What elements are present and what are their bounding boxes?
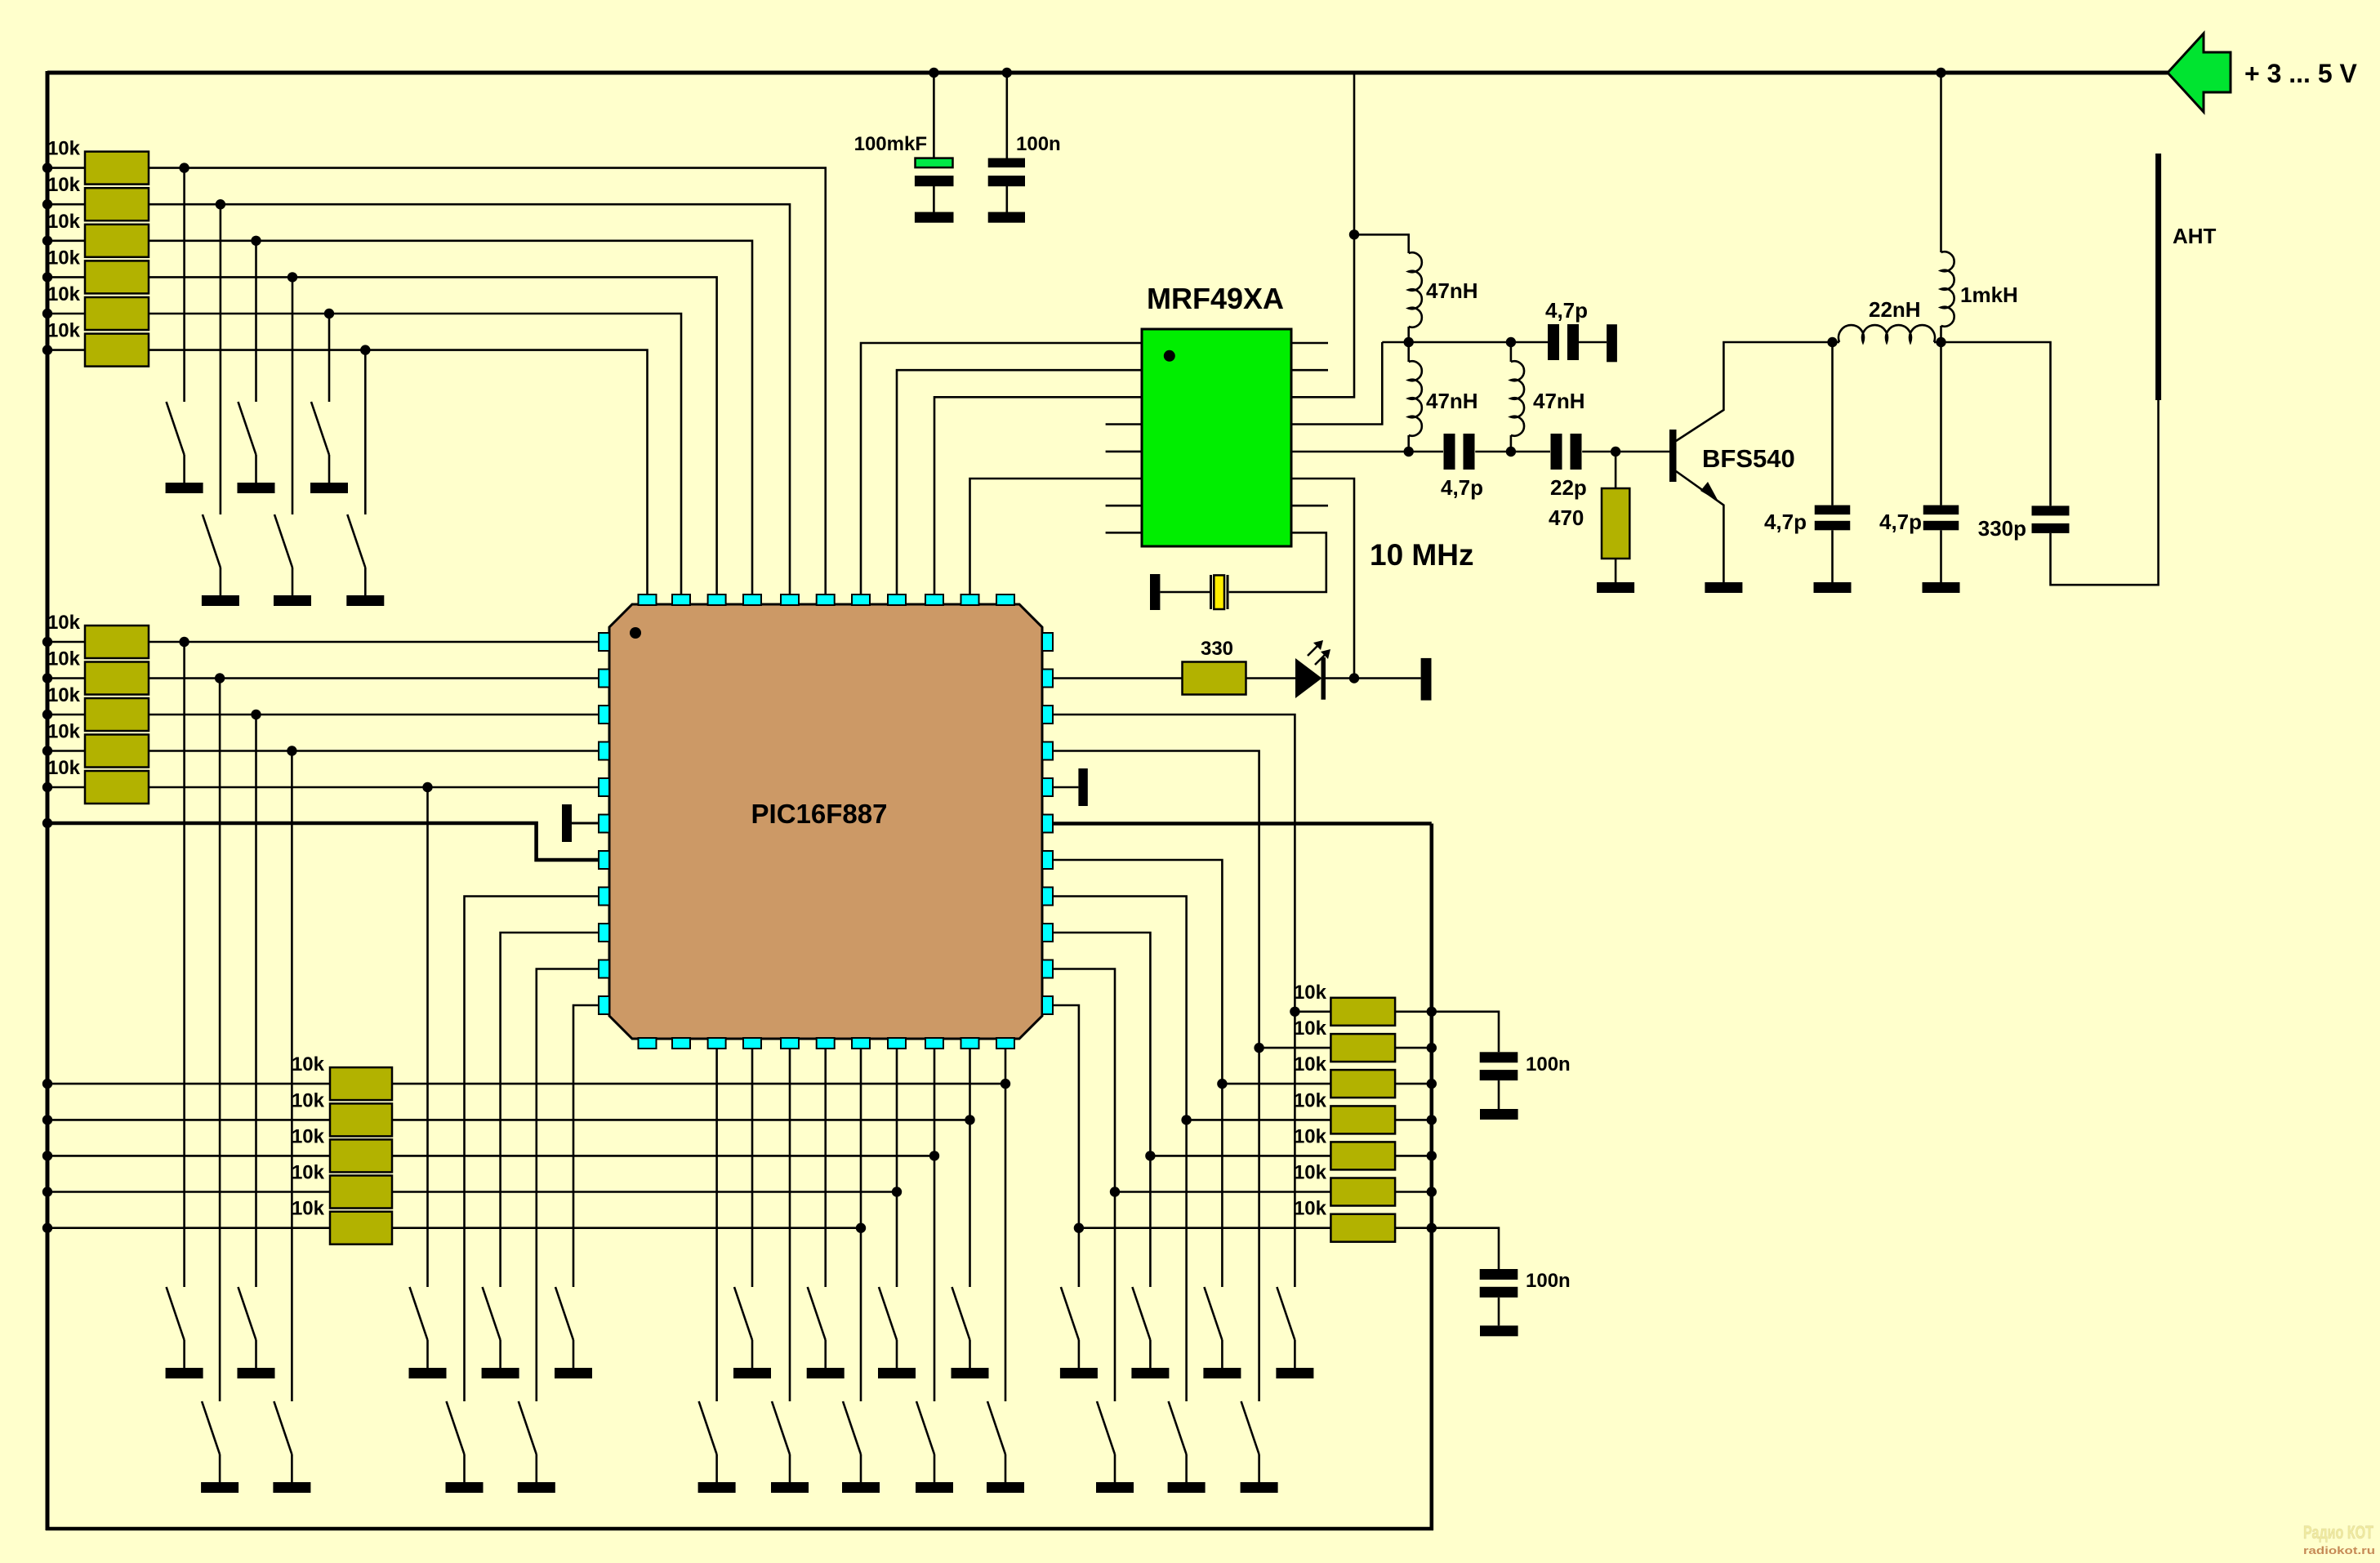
wire PIC pin R8 down (1053, 897, 1187, 1120)
ground SW18 (1203, 1368, 1241, 1378)
inductor L4 22nH (1833, 341, 1840, 344)
terminal plate (LED) (1421, 658, 1432, 701)
wire PIC bottom pin9 down (934, 1049, 936, 1401)
switch SW14 (bottom row1) (879, 1287, 897, 1340)
resistor R15 10k (bottom-left) (330, 1176, 392, 1209)
ground SW27 (916, 1482, 953, 1493)
capacitor C9 100n (1480, 1052, 1518, 1062)
wire vert x1320 down (1078, 1228, 1081, 1287)
svg-text:10k: 10k (47, 211, 81, 233)
PIC bottom pin 11 (996, 1038, 1014, 1049)
PIC top pin 1 (639, 594, 657, 605)
wire MRF pin L6 to PIC top pin10 (970, 479, 1143, 594)
wire row6 upper-left (47, 349, 85, 351)
wire 100n C10 top (1432, 1228, 1499, 1269)
MRF pin R2 stub (1291, 369, 1328, 372)
resistor R22 10k (right) (1330, 1178, 1395, 1206)
PIC top pin 8 (888, 594, 906, 605)
wire line1 to terminal (1579, 341, 1607, 344)
junction L3/line2 (1506, 447, 1516, 456)
wire switch column x447 (upper) (364, 350, 367, 514)
ground switch S3 (310, 483, 348, 493)
capacitor plate (MCLR) (562, 804, 572, 842)
ground SW28 (987, 1482, 1024, 1493)
resistor R18 10k (right) (1330, 1034, 1395, 1062)
wire row10 middle-left (47, 750, 85, 752)
wire vert x1541 down (1258, 1048, 1260, 1401)
switch SW7 (bottom row1) (167, 1287, 185, 1340)
wire row4 to PIC top pin (149, 277, 717, 594)
PIC bottom pin 6 (817, 1038, 835, 1049)
PIC right pin 9 (1042, 924, 1053, 942)
junction vertical/right row3 (1217, 1079, 1227, 1089)
wire row8 middle-left (47, 677, 85, 679)
svg-text:10k: 10k (292, 1089, 325, 1111)
PIC left pin 8 (599, 888, 609, 906)
wire row1 to PIC top pin (149, 168, 826, 594)
wire vert x1365 down (1114, 1192, 1116, 1402)
wire 330p to antenna (2051, 400, 2159, 585)
svg-text:100n: 100n (1526, 1053, 1571, 1075)
MRF pin L4 stub (1106, 423, 1142, 425)
svg-text:10k: 10k (1294, 1018, 1327, 1040)
wire C10 gnd (1498, 1298, 1500, 1326)
resistor R19 10k (right) (1330, 1070, 1395, 1098)
resistor R21 10k (right) (1330, 1142, 1395, 1169)
MRF pin1 indicator dot (1164, 350, 1175, 362)
svg-text:330: 330 (1201, 638, 1233, 660)
wire vert x1585 down (1294, 1012, 1296, 1287)
junction rail/row3 (upper-left) (42, 236, 52, 246)
junction row/PIC pin vertical (856, 1223, 866, 1233)
wire MRF pin R5 filter line2 (1291, 451, 1409, 453)
left ground/common rail (46, 71, 50, 1530)
resistor R23 10k (right) (1330, 1214, 1395, 1242)
capacitor C7 4,7p (1923, 505, 1959, 515)
PIC pin1 indicator dot (630, 627, 641, 639)
PIC right pin 10 (1042, 960, 1053, 978)
bottom border wire (46, 1527, 1433, 1531)
wire 4,7p C7 (1940, 342, 1942, 505)
wire PIC bottom pin10 down (969, 1049, 971, 1287)
PIC right pin 7 (1042, 851, 1053, 869)
wire bottom-left row3 b (392, 1155, 934, 1157)
junction right row5/rail (1427, 1151, 1437, 1160)
resistor R14 10k (bottom-left) (330, 1139, 392, 1172)
svg-text:BFS540: BFS540 (1702, 444, 1795, 473)
switch SW13 (bottom row1) (808, 1287, 826, 1340)
junction power/100mkF (929, 68, 938, 78)
wire 330p top (1941, 342, 2051, 505)
MRF pin L7 stub (1106, 505, 1142, 507)
wire power branch down (1353, 73, 1356, 234)
resistor R13 330 (1183, 662, 1246, 695)
wire right row7 a (1079, 1227, 1331, 1229)
switch SW22 (bottom row2) (447, 1401, 465, 1454)
junction rail/row4 (upper-left) (42, 272, 52, 282)
switch S6 (upper row B) (347, 514, 365, 568)
svg-text:10k: 10k (292, 1198, 325, 1220)
switch SW27 (bottom row2) (916, 1401, 934, 1454)
svg-text:47nH: 47nH (1533, 389, 1585, 413)
wire switch column x313 (upper) (255, 241, 257, 402)
junction rail/row5 (upper-left) (42, 309, 52, 318)
PIC top pin 2 (672, 594, 690, 605)
switch SW26 (bottom row2) (843, 1401, 861, 1454)
svg-text:AHT: AHT (2173, 224, 2217, 248)
wire plate to PIC pin6 (572, 822, 599, 824)
wire MRF pin L2 to PIC top pin8 (897, 370, 1142, 594)
wire 100n C9 top (1432, 1012, 1499, 1053)
PIC bottom pin 8 (888, 1038, 906, 1049)
wire col 523 down (426, 787, 429, 1287)
wire MRF pin R3 (VDD) to power (1291, 234, 1354, 397)
wire col 225 down (183, 642, 185, 1287)
switch SW15 (bottom row1) (952, 1287, 970, 1340)
wire right row1 a (1295, 1011, 1330, 1013)
svg-text:10k: 10k (47, 174, 81, 196)
wire PIC bottom pin6 down (824, 1049, 827, 1287)
svg-text:4,7p: 4,7p (1764, 510, 1807, 534)
switch SW9 (bottom row1) (410, 1287, 428, 1340)
switch SW8 (bottom row1) (238, 1287, 256, 1340)
wire PIC pin R10 down (1053, 969, 1115, 1192)
crystal X1 10MHz (1210, 575, 1212, 609)
wire PIC bottom pin4 down (751, 1049, 754, 1287)
wire vert x1496 down (1221, 1084, 1223, 1287)
resistor R17 10k (right) (1330, 998, 1395, 1026)
PIC left pin 11 (599, 996, 609, 1014)
capacitor C5 22p (1551, 434, 1562, 470)
wire L1 bottom (1407, 327, 1410, 342)
wire 330 to LED (1246, 677, 1295, 679)
wire row5 upper-left (47, 313, 85, 315)
junction rail/row (bottom-left 3) (42, 1151, 52, 1160)
resistor R20 10k (right) (1330, 1106, 1395, 1133)
junction power/1mkH (1936, 68, 1945, 78)
ground C7 (1923, 582, 1960, 593)
inductor L1 47nH (1409, 252, 1422, 327)
junction right row1/rail (1427, 1007, 1437, 1017)
wire row3 to PIC top pin (149, 241, 752, 594)
junction row9/switch column (251, 710, 261, 719)
svg-text:10k: 10k (47, 648, 81, 670)
svg-text:10k: 10k (47, 247, 81, 269)
junction row/PIC pin vertical (892, 1187, 902, 1196)
wire bottom-left row5 a (47, 1227, 330, 1229)
MRF pin R1 stub (1291, 342, 1328, 345)
svg-text:10k: 10k (47, 138, 81, 160)
wire bottom-left row2 a (47, 1119, 330, 1121)
junction base/470 (1611, 447, 1620, 456)
wire row9 to PIC left pin (149, 714, 599, 716)
PIC right pin 2 (1042, 670, 1053, 688)
PIC bottom pin 1 (639, 1038, 657, 1049)
power arrow +3...5V (2168, 33, 2231, 112)
junction row8/switch column (215, 673, 225, 683)
PIC pin R6 thick wire (1053, 822, 1432, 826)
wire right row3 a (1222, 1083, 1330, 1085)
svg-text:22nH: 22nH (1869, 297, 1921, 322)
PIC top pin 10 (961, 594, 979, 605)
svg-text:10k: 10k (47, 283, 81, 305)
PIC top pin 11 (996, 594, 1014, 605)
switch SW17 (bottom row1) (1132, 1287, 1150, 1340)
ground C10 (1480, 1325, 1518, 1336)
junction collector/4,7p (1827, 337, 1837, 347)
wire right row3 b (1395, 1083, 1432, 1085)
junction rail/row9 (middle-left) (42, 710, 52, 719)
wire PIC pin R5 to plate (1053, 786, 1078, 789)
wire bottom-left row4 b (392, 1191, 897, 1193)
junction power/100n (1002, 68, 1012, 78)
junction row10/switch column (287, 746, 296, 755)
svg-text:10k: 10k (1294, 1162, 1327, 1184)
switch SW16 (bottom row1) (1061, 1287, 1079, 1340)
svg-text:+ 3 ... 5 V: + 3 ... 5 V (2244, 59, 2358, 88)
wire MRF pin L1 to PIC top pin7 (861, 343, 1142, 594)
svg-text:47nH: 47nH (1426, 389, 1478, 413)
svg-text:4,7p: 4,7p (1879, 510, 1922, 534)
PIC right pin 11 (1042, 996, 1053, 1014)
wire 47nH L1 top (1354, 234, 1409, 253)
PIC bottom pin 2 (672, 1038, 690, 1049)
PIC bottom pin 9 (925, 1038, 943, 1049)
junction rail/row8 (middle-left) (42, 673, 52, 683)
ground SW8 (238, 1368, 275, 1378)
MCLR wire (thick) (47, 823, 599, 860)
MRF pin L8 stub (1106, 532, 1142, 534)
junction LED/MRF R6 (1349, 673, 1359, 683)
junction L2/line2 (1404, 447, 1414, 456)
junction right row2/rail (1427, 1043, 1437, 1053)
PIC bottom pin 4 (743, 1038, 761, 1049)
switch SW28 (bottom row2) (987, 1401, 1005, 1454)
ground SW29 (1096, 1482, 1134, 1493)
filter line2 wire segB (1475, 451, 1550, 453)
ground SW23 (518, 1482, 555, 1493)
switch S3 (upper row A) (311, 402, 329, 455)
svg-text:100n: 100n (1526, 1270, 1571, 1292)
switch SW31 (bottom row2) (1241, 1401, 1259, 1454)
ground SW14 (878, 1368, 916, 1378)
PIC right pin 1 (1042, 633, 1053, 651)
junction L3/line1 (1506, 337, 1516, 347)
wire PIC bottom pin8 down (896, 1049, 898, 1287)
PIC right pin 3 (1042, 706, 1053, 724)
ground SW11 (555, 1368, 592, 1378)
capacitor C10 100n (1480, 1269, 1518, 1280)
svg-text:radiokot.ru: radiokot.ru (2303, 1544, 2375, 1556)
junction row/PIC pin vertical (929, 1151, 939, 1160)
resistor R8 10k (middle-left) (85, 662, 149, 695)
wire col 269 down (219, 679, 221, 1402)
junction right row7/rail (1427, 1223, 1437, 1233)
junction row7/switch column (179, 637, 189, 647)
svg-text:10k: 10k (47, 320, 81, 342)
PIC right pin 5 (1042, 778, 1053, 796)
wire PIC pin L11 down (573, 1005, 599, 1287)
wire 100mkF (933, 73, 935, 158)
wire PIC pin R2 to 330 resistor (1053, 677, 1183, 679)
wire vert x1408 down (1149, 1156, 1152, 1287)
wire row7 middle-left (47, 641, 85, 643)
ground C6 (1814, 582, 1852, 593)
wire C7 gnd (1940, 530, 1942, 582)
wire row2 to PIC top pin (149, 204, 790, 594)
wire bottom-left row5 b (392, 1227, 861, 1229)
wire bottom-left row1 b (392, 1083, 1005, 1085)
wire PIC pin R9 down (1053, 933, 1150, 1156)
wire PIC bottom pin5 down (789, 1049, 791, 1401)
svg-text:Радио КОТ: Радио КОТ (2303, 1522, 2373, 1543)
wire C9 gnd (1498, 1080, 1500, 1109)
LED arrows (1308, 645, 1318, 656)
wire line2 to base (1582, 451, 1669, 453)
wire switch column x225 (upper) (183, 168, 185, 402)
wire PIC pin R4 down (1053, 751, 1259, 1049)
MRF pin L5 stub (1106, 451, 1142, 453)
svg-text:10 MHz: 10 MHz (1370, 538, 1473, 572)
PIC right pin 4 (1042, 742, 1053, 760)
PIC left pin 10 (599, 960, 609, 978)
PIC left pin 2 (599, 670, 609, 688)
junction row6/switch column (360, 345, 370, 354)
junction rail/row7 (middle-left) (42, 637, 52, 647)
wire row2 upper-left (47, 203, 85, 206)
ground SW20 (201, 1482, 238, 1493)
junction rail/row (bottom-left 5) (42, 1223, 52, 1233)
wire right row4 b (1395, 1119, 1432, 1121)
wire 100n (1006, 73, 1009, 158)
ground switch S6 (346, 595, 384, 606)
junction row/PIC pin vertical (965, 1115, 974, 1124)
junction rail/MCLR (42, 818, 52, 828)
junction row/PIC pin vertical (1001, 1079, 1010, 1089)
wire right row7 b (1395, 1227, 1432, 1229)
resistor R12 470 (1602, 488, 1629, 559)
wire LED to terminal (1326, 677, 1421, 679)
wire bottom-left row1 a (47, 1083, 330, 1085)
wire col 313 down (255, 715, 257, 1287)
LED D1 (1295, 658, 1322, 698)
ground switch S2 (238, 483, 275, 493)
ground SW10 (482, 1368, 519, 1378)
svg-text:10k: 10k (1294, 1089, 1327, 1111)
wire right row2 a (1259, 1047, 1331, 1049)
ground 100mkF (915, 212, 954, 223)
ground SW17 (1131, 1368, 1169, 1378)
wire PIC bottom pin3 down (715, 1049, 718, 1401)
wire right row4 a (1187, 1119, 1331, 1121)
Q1 emitter wire (1676, 471, 1723, 582)
ground SW24 (698, 1482, 736, 1493)
junction vertical/right row7 (1074, 1223, 1084, 1233)
wire PIC pin R3 down (1053, 715, 1295, 1012)
svg-text:10k: 10k (1294, 1125, 1327, 1147)
svg-text:PIC16F887: PIC16F887 (751, 799, 888, 829)
PIC right pin 6 (1042, 815, 1053, 833)
terminal plate (PIC R5) (1078, 768, 1087, 806)
wire PIC pin R7 down (1053, 860, 1222, 1084)
transistor Q1 BFS540 base bar (1669, 430, 1677, 482)
wire right row2 b (1395, 1047, 1432, 1049)
wire C6 gnd (1831, 530, 1834, 582)
junction row1/switch column (179, 163, 189, 172)
wire row3 upper-left (47, 239, 85, 242)
resistor R4 10k (upper-left) (85, 260, 149, 293)
wire right row1 b (1395, 1011, 1432, 1013)
ground SW13 (807, 1368, 845, 1378)
ground SW7 (166, 1368, 203, 1378)
svg-text:10k: 10k (292, 1125, 325, 1147)
svg-text:47nH: 47nH (1426, 278, 1478, 303)
Q1 collector wire (1676, 342, 1833, 441)
svg-text:10k: 10k (1294, 982, 1327, 1004)
svg-text:10k: 10k (292, 1162, 325, 1184)
ground switch S4 (202, 595, 239, 606)
junction right row3/rail (1427, 1079, 1437, 1089)
ground switch S1 (166, 483, 203, 493)
wire 470 bottom (1615, 559, 1617, 582)
svg-text:100mkF: 100mkF (854, 133, 927, 155)
switch SW12 (bottom row1) (734, 1287, 752, 1340)
ground SW12 (733, 1368, 771, 1378)
capacitor C4 4,7p (line2) (1444, 434, 1455, 470)
ground SW15 (952, 1368, 989, 1378)
PIC bottom pin 10 (961, 1038, 979, 1049)
wire 4,7p C6 (1831, 342, 1834, 505)
wire row5 to PIC top pin (149, 314, 681, 594)
ground SW9 (409, 1368, 447, 1378)
junction row11/switch column (422, 782, 432, 792)
junction row2/switch column (216, 199, 225, 209)
svg-text:MRF49XA: MRF49XA (1147, 282, 1284, 315)
svg-text:4,7p: 4,7p (1441, 475, 1483, 500)
PIC bottom pin 7 (852, 1038, 870, 1049)
resistor R2 10k (upper-left) (85, 188, 149, 220)
junction row3/switch column (251, 236, 261, 246)
capacitor C3 4,7p (line1) (1548, 324, 1559, 360)
resistor R5 10k (upper-left) (85, 297, 149, 330)
wire vert x1452 down (1185, 1120, 1188, 1401)
resistor R16 10k (bottom-left) (330, 1212, 392, 1245)
wire right row5 b (1395, 1155, 1432, 1157)
wire switch column x269 (upper) (220, 204, 222, 514)
filter line2 wire segA (1409, 451, 1443, 453)
ground SW16 (1060, 1368, 1098, 1378)
ground switch S5 (274, 595, 311, 606)
switch SW24 (bottom row2) (699, 1401, 717, 1454)
PIC left pin 3 (599, 706, 609, 724)
ground SW25 (771, 1482, 809, 1493)
junction vertical/right row6 (1110, 1187, 1120, 1196)
wire bottom-left row4 a (47, 1191, 330, 1193)
wire switch column x403 (upper) (328, 314, 331, 402)
svg-text:1mkH: 1mkH (1960, 283, 2018, 307)
switch S4 (upper row B) (203, 514, 221, 568)
terminal plate (line1) (1607, 324, 1617, 362)
junction rail/row (bottom-left 2) (42, 1115, 52, 1124)
switch S5 (upper row B) (274, 514, 292, 568)
switch SW25 (bottom row2) (772, 1401, 790, 1454)
MRF pin R7 stub (1291, 505, 1328, 507)
PIC left pin 4 (599, 742, 609, 760)
wire row7 to PIC left pin (149, 641, 599, 643)
ground C9 (1480, 1109, 1518, 1120)
wire PIC pin L10 down (537, 969, 599, 1402)
PIC bottom pin 5 (781, 1038, 799, 1049)
